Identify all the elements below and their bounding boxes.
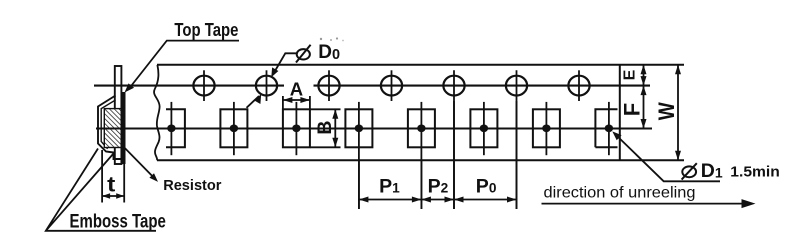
dim P2 (421, 197, 454, 203)
sprocket hole 7 (568, 70, 589, 101)
dim E (641, 65, 647, 86)
resistor hatched (104, 109, 121, 148)
tape right edge (619, 65, 621, 161)
pocket 7 (533, 102, 560, 155)
dim W (675, 65, 681, 161)
sprocket hole 3 (318, 70, 339, 101)
svg-text:W: W (654, 102, 679, 120)
wire pocket center line (96, 127, 652, 129)
label phi D1 (682, 163, 697, 179)
noise dots (320, 38, 322, 40)
wire sprocket center line (94, 85, 650, 87)
leader Top Tape (125, 41, 240, 93)
leader Resistor (125, 148, 158, 182)
pocket 8 (595, 102, 617, 155)
dim P0 (454, 197, 517, 203)
arrow direction of unreeling (542, 199, 756, 208)
dim P1 (359, 197, 422, 203)
svg-text:Emboss Tape: Emboss Tape (70, 211, 166, 232)
pocket 3 (283, 102, 310, 155)
svg-text:A: A (290, 79, 303, 100)
sprocket hole 2 (256, 70, 277, 101)
leader Emboss Tape (46, 149, 156, 231)
emboss tape strip (section) (115, 66, 122, 164)
sprocket hole 5 (443, 70, 464, 209)
svg-text:Resistor: Resistor (163, 178, 222, 194)
pocket 2 (220, 102, 247, 155)
tape top edge (157, 64, 684, 66)
pocket 4 (345, 102, 372, 209)
pocket 5 (408, 102, 435, 209)
dim A (283, 96, 310, 109)
dim P extension lines (359, 101, 517, 209)
svg-text:E: E (621, 69, 638, 80)
label phi D0 (296, 45, 311, 63)
svg-text:Top Tape: Top Tape (174, 20, 238, 40)
svg-text:t: t (107, 174, 115, 197)
pocket 6 (470, 102, 497, 155)
svg-text:direction of unreeling: direction of unreeling (544, 185, 696, 202)
dim F (641, 86, 647, 129)
pocket 1 (clipped by break) (166, 102, 185, 155)
top tape (section, black bar) (121, 92, 125, 164)
svg-text:F: F (620, 103, 645, 116)
sprocket hole 4 (381, 70, 402, 101)
bump inner wall (101, 100, 115, 149)
leader phi D0 (247, 53, 298, 108)
emboss pocket bump (section) (98, 96, 121, 160)
sprocket hole 6 (506, 70, 527, 209)
tape bottom edge (157, 159, 684, 161)
svg-text:1.5min: 1.5min (730, 165, 780, 181)
dim B (311, 109, 341, 147)
dim t (102, 150, 124, 203)
sprocket hole 1 (193, 70, 214, 101)
tape left break line (154, 65, 160, 161)
svg-text:B: B (314, 121, 336, 135)
leader phi D1 (612, 131, 720, 181)
